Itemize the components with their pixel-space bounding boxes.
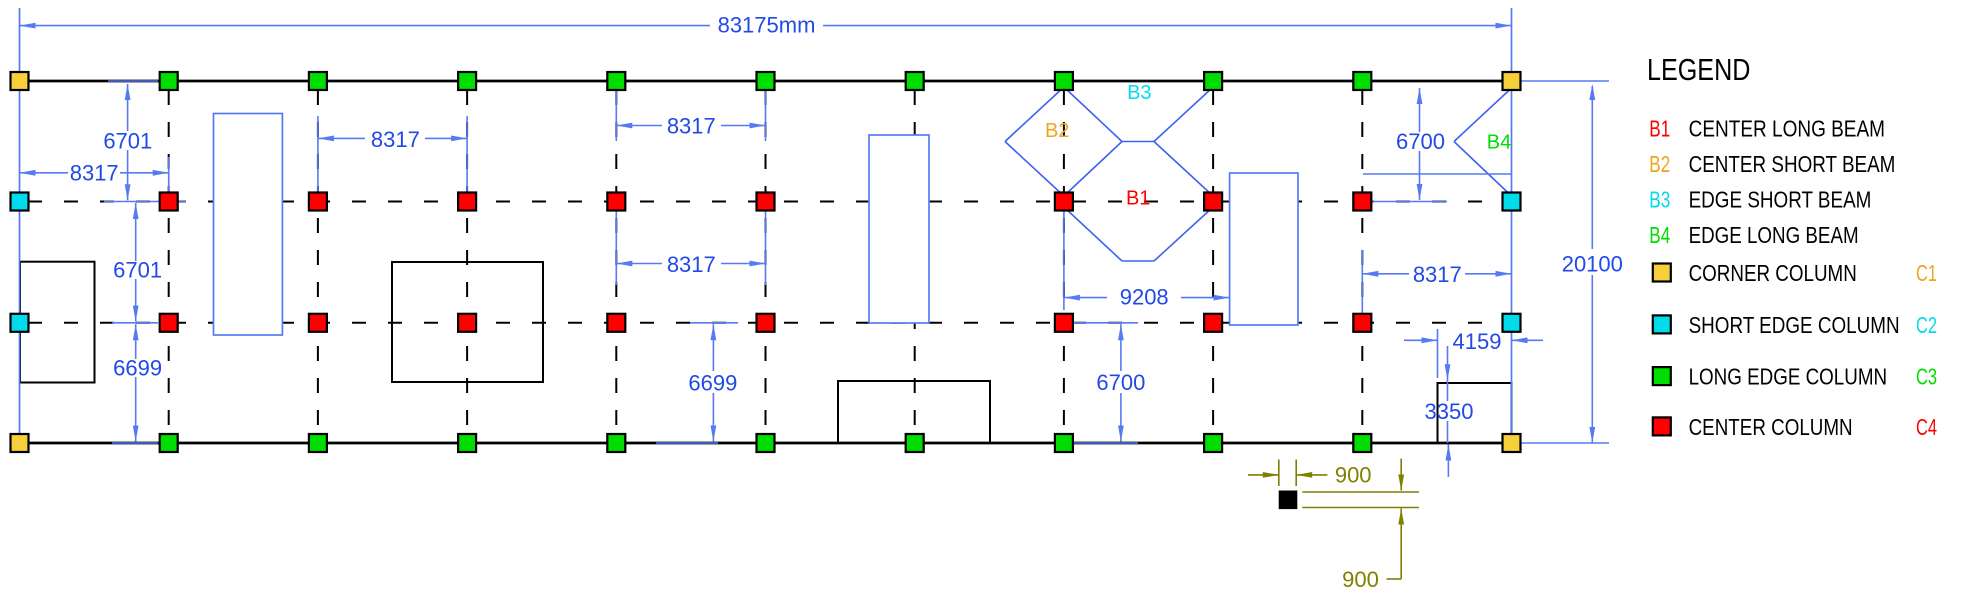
black rectangle outline top-left bbox=[20, 262, 95, 383]
column detail upper horizontal line bbox=[1302, 491, 1419, 493]
beam line B4 chevron lower bbox=[1454, 142, 1512, 197]
svg-text:9208: 9208 bbox=[1120, 284, 1169, 309]
dimension 8317 fourth bay mid line bbox=[616, 263, 662, 265]
grid: vertical dashed column line 1 bbox=[168, 90, 170, 434]
edge beam horizontal line right bay bbox=[1363, 173, 1512, 175]
grid: vertical dashed column line 4 bbox=[615, 90, 617, 434]
dimension 6701 lower line bbox=[135, 203, 137, 261]
long edge column C3 top 8 bbox=[1204, 72, 1222, 90]
center column C4 row3 8 bbox=[1204, 314, 1222, 332]
svg-text:LONG EDGE COLUMN: LONG EDGE COLUMN bbox=[1689, 364, 1888, 390]
extension overlay top chord near 6701 bbox=[108, 80, 158, 82]
column size vertical 900 top arrow bbox=[1400, 459, 1402, 491]
extension overlay row2 left bbox=[104, 201, 186, 203]
center column C4 row2 8 bbox=[1204, 193, 1222, 211]
opening rectangle (blue, white filled) left bbox=[214, 114, 283, 336]
dimension 3350 bottom outside arrow bbox=[1447, 445, 1449, 478]
corner column C1 bottom-left bbox=[11, 434, 29, 452]
svg-text:6700: 6700 bbox=[1096, 370, 1145, 395]
svg-text:B1: B1 bbox=[1126, 187, 1150, 209]
beam line B2 diamond upper-right bbox=[1064, 87, 1122, 142]
center column C4 row2 3 bbox=[458, 193, 476, 211]
beam line flat joint lower bbox=[1122, 260, 1154, 262]
svg-text:6701: 6701 bbox=[103, 128, 152, 153]
grid: vertical dashed column line 3 bbox=[466, 90, 468, 434]
black rectangle outline mid-left bbox=[392, 262, 543, 382]
svg-text:CORNER COLUMN: CORNER COLUMN bbox=[1689, 260, 1857, 286]
grid: vertical dashed column line 7 bbox=[1063, 90, 1065, 434]
svg-text:8317: 8317 bbox=[371, 127, 420, 152]
svg-text:900: 900 bbox=[1342, 567, 1379, 592]
long edge column C3 bottom 8 bbox=[1204, 434, 1222, 452]
long edge column C3 bottom 6 bbox=[906, 434, 924, 452]
grid: horizontal dashed row line 2 bbox=[28, 201, 1503, 203]
extension overlay row3 left bbox=[112, 322, 158, 324]
svg-text:SHORT EDGE COLUMN: SHORT EDGE COLUMN bbox=[1689, 312, 1900, 338]
svg-text:8317: 8317 bbox=[667, 113, 716, 138]
dimension 4159 extension line bbox=[1437, 329, 1439, 378]
center column C4 row3 2 bbox=[309, 314, 327, 332]
svg-text:6699: 6699 bbox=[113, 356, 162, 381]
svg-text:8317: 8317 bbox=[70, 161, 119, 186]
beam line B2 diamond upper-left bbox=[1005, 87, 1064, 142]
center column C4 row2 1 bbox=[160, 193, 178, 211]
svg-text:B1: B1 bbox=[1649, 116, 1670, 142]
beam line B3 up-right bbox=[1154, 87, 1213, 142]
long edge column C3 top 5 bbox=[757, 72, 775, 90]
short edge column C2 row2 right bbox=[1503, 193, 1521, 211]
dimension 9208 line bbox=[1064, 297, 1107, 299]
long edge column C3 top 7 bbox=[1055, 72, 1073, 90]
svg-text:6699: 6699 bbox=[688, 370, 737, 395]
grid: vertical dashed column line 2 bbox=[317, 90, 319, 434]
dimension 4159 right outside arrow bbox=[1512, 339, 1544, 341]
svg-text:B3: B3 bbox=[1127, 82, 1151, 104]
svg-text:8317: 8317 bbox=[667, 252, 716, 277]
legend column row C2 bbox=[1653, 315, 1671, 333]
svg-text:C4: C4 bbox=[1916, 414, 1937, 440]
dimension 6699 middle line bbox=[712, 324, 714, 371]
column size dimension 900 horizontal right arrow and leader bbox=[1296, 474, 1327, 476]
long edge column C3 bottom 4 bbox=[607, 434, 625, 452]
beam line B1 upper-right edge bbox=[1154, 142, 1213, 197]
dimension 8317 left bay line bbox=[20, 172, 69, 174]
short edge column C2 row3 left bbox=[11, 314, 29, 332]
center column C4 row2 9 bbox=[1353, 193, 1371, 211]
svg-text:C3: C3 bbox=[1916, 364, 1937, 390]
dimension 3350 line bbox=[1447, 380, 1449, 401]
svg-text:CENTER LONG BEAM: CENTER LONG BEAM bbox=[1689, 116, 1885, 142]
corner column C1 top-left bbox=[11, 72, 29, 90]
beam line B2 diamond closing edge bbox=[1064, 142, 1122, 197]
opening rectangle (blue, white filled) middle bbox=[869, 135, 929, 323]
opening rectangle (blue, white filled) right bbox=[1230, 173, 1298, 325]
building left edge extension line bbox=[19, 8, 21, 443]
extension overlay row3 right-mid bbox=[1073, 322, 1138, 324]
center column C4 row2 4 bbox=[607, 193, 625, 211]
svg-text:83175mm: 83175mm bbox=[718, 13, 816, 38]
corner column C1 bottom-right bbox=[1503, 434, 1521, 452]
beam line B1 lower-right bbox=[1154, 207, 1213, 261]
svg-text:CENTER COLUMN: CENTER COLUMN bbox=[1689, 414, 1853, 440]
svg-text:4159: 4159 bbox=[1453, 329, 1502, 354]
svg-text:3350: 3350 bbox=[1425, 399, 1474, 424]
dimension 8317 second bay extension ticks bbox=[317, 116, 319, 193]
svg-text:CENTER SHORT BEAM: CENTER SHORT BEAM bbox=[1689, 151, 1896, 177]
long edge column C3 top 6 bbox=[906, 72, 924, 90]
long edge column C3 bottom 1 bbox=[160, 434, 178, 452]
svg-text:20100: 20100 bbox=[1562, 252, 1623, 277]
column size vertical 900 bottom arrow and leader bbox=[1400, 509, 1402, 580]
dimension 9208 extension line bbox=[1063, 211, 1065, 310]
dimension 6700 lower line bbox=[1120, 324, 1122, 371]
long edge column C3 bottom 2 bbox=[309, 434, 327, 452]
beam line B1 lower-left bbox=[1064, 207, 1122, 261]
center column C4 row3 7 bbox=[1055, 314, 1073, 332]
svg-text:6700: 6700 bbox=[1396, 129, 1445, 154]
column detail black square bbox=[1279, 491, 1298, 510]
extension overlay row3 middle bbox=[690, 322, 738, 324]
grid: vertical dashed column line 9 bbox=[1361, 90, 1363, 434]
extension overlay bottom chord left bbox=[112, 442, 158, 444]
center column C4 row2 2 bbox=[309, 193, 327, 211]
column size 900 extension ticks bbox=[1278, 460, 1280, 487]
grid: vertical dashed column line 6 bbox=[914, 90, 916, 434]
dimension 8317 left bay extension tick bbox=[168, 157, 170, 192]
dimension 8317 fourth bay line bbox=[616, 125, 662, 127]
grid: vertical dashed column line 8 bbox=[1212, 90, 1214, 434]
corner column C1 top-right bbox=[1503, 72, 1521, 90]
svg-text:B4: B4 bbox=[1487, 132, 1511, 154]
long edge column C3 top 3 bbox=[458, 72, 476, 90]
svg-text:LEGEND: LEGEND bbox=[1647, 52, 1750, 87]
svg-text:B4: B4 bbox=[1649, 222, 1670, 248]
svg-text:EDGE LONG BEAM: EDGE LONG BEAM bbox=[1689, 222, 1859, 248]
center column C4 row3 1 bbox=[160, 314, 178, 332]
dimension 4159 left outside arrow bbox=[1404, 339, 1438, 341]
svg-text:B3: B3 bbox=[1649, 187, 1670, 213]
long edge column C3 top 9 bbox=[1353, 72, 1371, 90]
dimension 6700 upper-right line bbox=[1419, 88, 1421, 132]
center column C4 row3 9 bbox=[1353, 314, 1371, 332]
long edge column C3 bottom 9 bbox=[1353, 434, 1371, 452]
dimension 8317 right bay extension bbox=[1361, 250, 1363, 313]
svg-text:EDGE SHORT BEAM: EDGE SHORT BEAM bbox=[1689, 187, 1872, 213]
center column C4 row2 5 bbox=[757, 193, 775, 211]
center column C4 row3 4 bbox=[607, 314, 625, 332]
legend column row C3 bbox=[1653, 367, 1671, 385]
beam line flat joint upper bbox=[1122, 141, 1154, 143]
dimension 20100 extension top bbox=[1520, 80, 1609, 82]
svg-text:B2: B2 bbox=[1649, 151, 1670, 177]
dimension 8317 fourth bay mid extension ticks bbox=[615, 210, 617, 285]
svg-text:B2: B2 bbox=[1045, 120, 1069, 142]
long edge column C3 bottom 7 bbox=[1055, 434, 1073, 452]
long edge column C3 top 4 bbox=[607, 72, 625, 90]
grid: vertical dashed column line 5 bbox=[765, 90, 767, 434]
long edge column C3 top 1 bbox=[160, 72, 178, 90]
dimension 8317 second bay line bbox=[318, 137, 365, 139]
legend column row C4 bbox=[1653, 417, 1671, 435]
dimension 3350 top outside arrow bbox=[1447, 346, 1449, 380]
center column C4 row2 7 bbox=[1055, 193, 1073, 211]
dimension 20100 extension bottom bbox=[1520, 442, 1609, 444]
dimension 6699 left line bbox=[135, 324, 137, 359]
long edge column C3 bottom 3 bbox=[458, 434, 476, 452]
extension overlay bottom chord right-mid bbox=[1073, 442, 1138, 444]
dimension 83175mm line bbox=[20, 25, 711, 27]
center column C4 row3 3 bbox=[458, 314, 476, 332]
dimension 8317 right bay line bbox=[1362, 273, 1409, 275]
extension overlay bottom chord middle bbox=[656, 442, 718, 444]
building right edge extension line bbox=[1511, 8, 1513, 443]
svg-text:900: 900 bbox=[1335, 462, 1372, 487]
center column C4 row3 5 bbox=[757, 314, 775, 332]
grid: horizontal dashed row line 3 bbox=[28, 322, 1503, 324]
svg-text:C1: C1 bbox=[1916, 260, 1937, 286]
building top chord bbox=[20, 80, 1512, 83]
svg-text:C2: C2 bbox=[1916, 312, 1937, 338]
svg-text:6701: 6701 bbox=[113, 258, 162, 283]
extension overlay row2 right bbox=[1372, 201, 1447, 203]
black rectangle outline bottom-middle bbox=[838, 381, 990, 443]
svg-text:8317: 8317 bbox=[1413, 262, 1462, 287]
long edge column C3 top 2 bbox=[309, 72, 327, 90]
short edge column C2 row2 left bbox=[11, 193, 29, 211]
column size dimension 900 horizontal left arrow bbox=[1248, 474, 1279, 476]
beam line B4 chevron upper bbox=[1454, 88, 1512, 142]
long edge column C3 bottom 5 bbox=[757, 434, 775, 452]
dimension 8317 fourth bay extension ticks bbox=[615, 90, 617, 141]
building bottom chord bbox=[20, 442, 1512, 445]
dimension 20100 line bbox=[1591, 86, 1593, 249]
beam line B2 diamond lower-left bbox=[1005, 142, 1064, 197]
column detail lower horizontal line bbox=[1302, 507, 1419, 509]
black rectangle outline bottom-right bbox=[1438, 383, 1512, 443]
short edge column C2 row3 right bbox=[1503, 314, 1521, 332]
legend column row C1 bbox=[1653, 264, 1671, 282]
dimension 6701 upper line bbox=[127, 84, 129, 131]
